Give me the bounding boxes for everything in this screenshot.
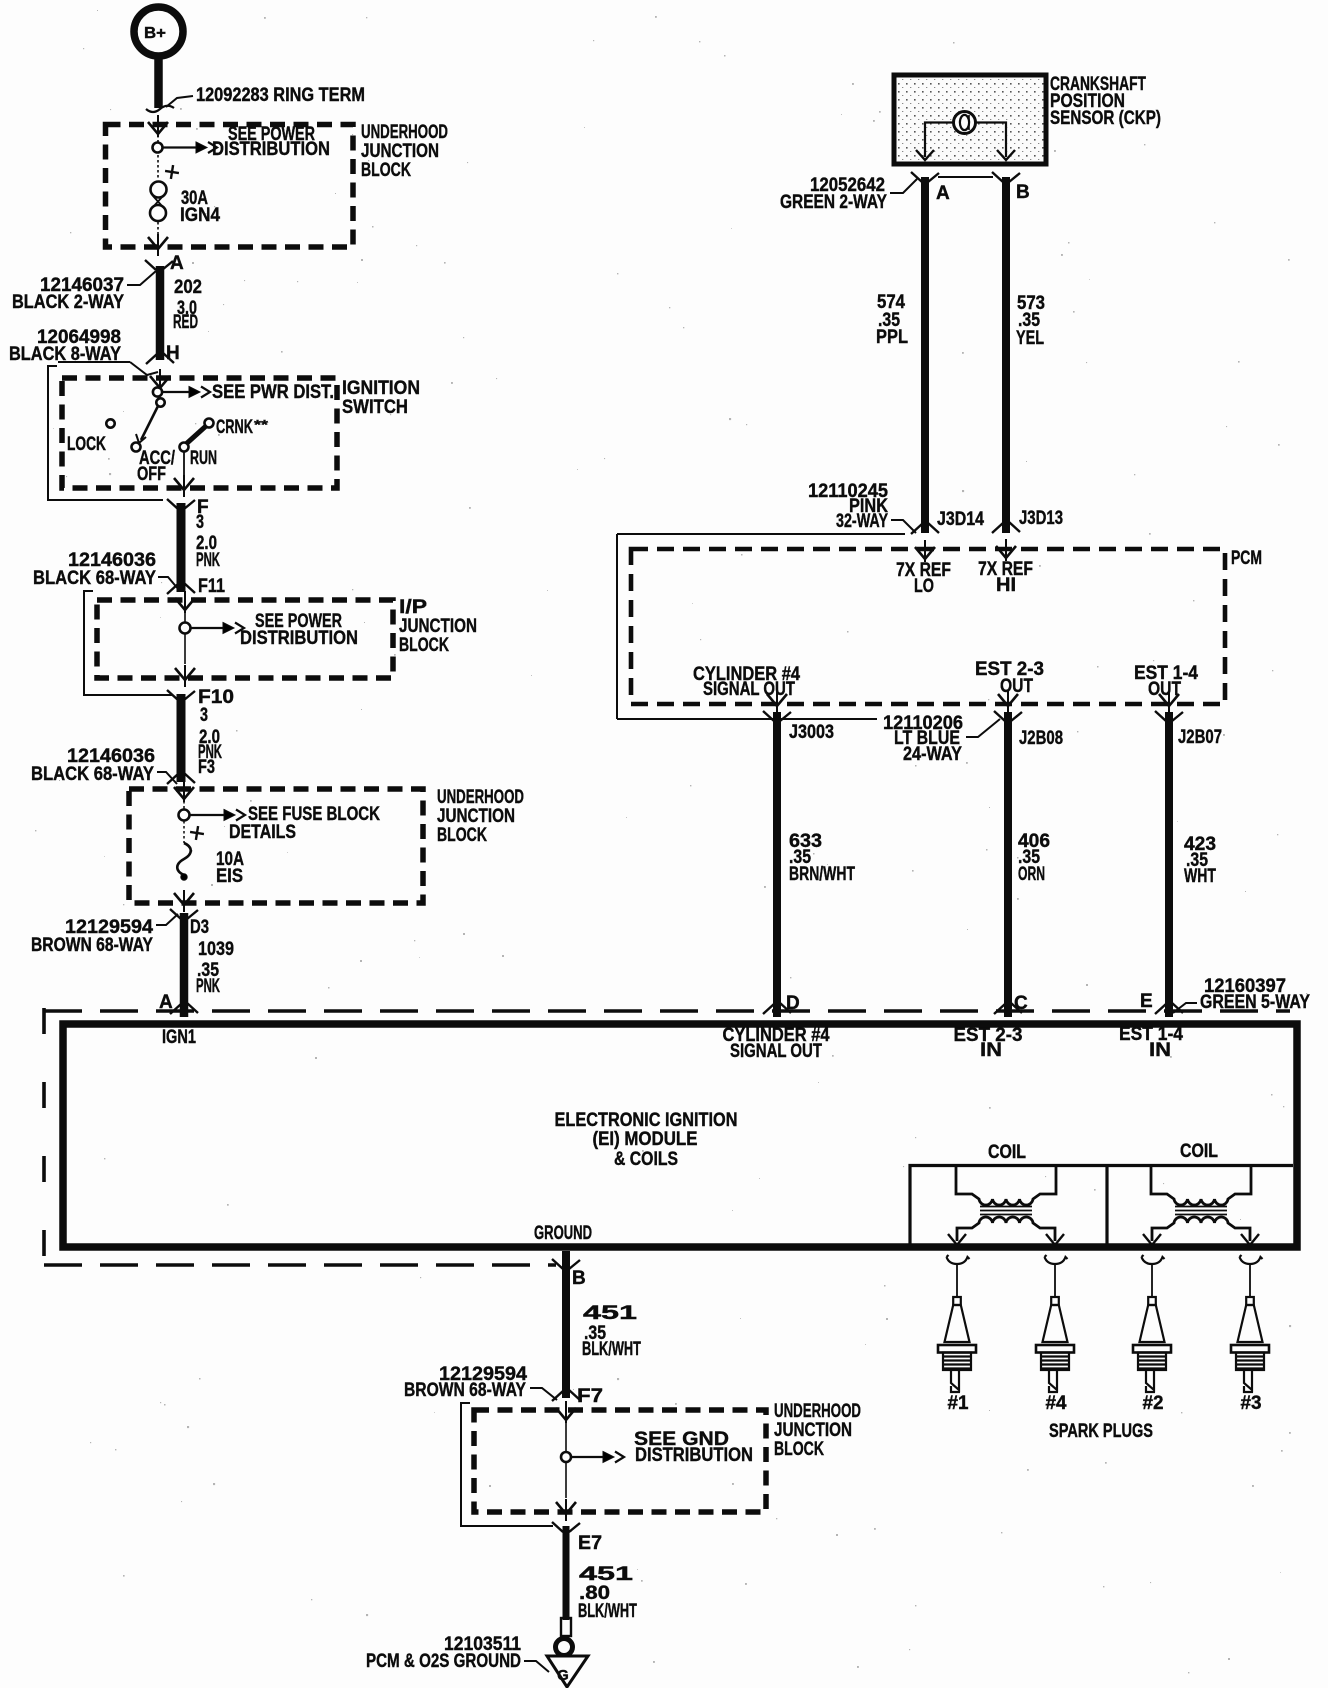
svg-text:A: A	[936, 183, 950, 204]
ignition switch block (dashed)	[62, 378, 337, 488]
node F3	[167, 757, 215, 784]
svg-text:LO: LO	[914, 576, 934, 597]
svg-text:BLOCK: BLOCK	[437, 825, 487, 846]
svg-text:UNDERHOOD: UNDERHOOD	[774, 1401, 861, 1422]
node H	[146, 343, 180, 364]
fuse 10A EIS	[177, 843, 244, 887]
svg-text:LOCK: LOCK	[67, 434, 106, 455]
label underhood junction block	[361, 122, 448, 181]
see gnd distribution arrow	[571, 1429, 753, 1466]
spark plug #1	[938, 1255, 976, 1414]
CKP internal wiring	[916, 123, 1015, 161]
see power distribution arrow	[191, 611, 358, 649]
node B ground pin	[552, 1259, 586, 1289]
label crankshaft position sensor	[1050, 74, 1161, 129]
node J2B08	[994, 711, 1063, 749]
svg-text:3: 3	[200, 705, 208, 726]
svg-text:COIL: COIL	[1180, 1141, 1218, 1162]
connector 12146037 BLACK 2-WAY	[12, 271, 156, 313]
svg-text:BLACK 68-WAY: BLACK 68-WAY	[31, 764, 154, 785]
node C	[994, 993, 1028, 1014]
label COIL 2	[1180, 1141, 1218, 1162]
svg-text:32-WAY: 32-WAY	[836, 511, 888, 532]
internal bus wire	[157, 135, 159, 238]
svg-text:A: A	[170, 253, 184, 274]
svg-text:J3003: J3003	[789, 722, 834, 743]
node J2B07	[1155, 711, 1222, 748]
contact RUN	[180, 443, 189, 452]
I/P junction block outer boundary	[84, 591, 172, 695]
svg-text:#4: #4	[1046, 1393, 1067, 1414]
connector 12064998 BLACK 8-WAY	[9, 327, 158, 375]
wire 451 .80 BLK/WHT	[566, 1526, 637, 1622]
EI module outer dashed boundary	[44, 1008, 1290, 1267]
svg-text:SEE PWR DIST.: SEE PWR DIST.	[212, 382, 334, 403]
exit arrow	[556, 1499, 576, 1521]
polarity plus mark	[164, 164, 180, 180]
svg-text:SENSOR (CKP): SENSOR (CKP)	[1050, 108, 1161, 129]
svg-text:F11: F11	[198, 576, 225, 597]
entry arrow	[556, 1401, 576, 1423]
svg-text:1039: 1039	[198, 939, 234, 960]
label underhood junction block 3	[774, 1401, 861, 1460]
label electronic ignition module	[555, 1110, 738, 1170]
svg-text:IN: IN	[1149, 1040, 1171, 1061]
entry arrow into block	[148, 115, 168, 137]
svg-text:BLACK 68-WAY: BLACK 68-WAY	[33, 568, 156, 589]
node F10	[167, 687, 234, 708]
spark plug #4	[1036, 1255, 1074, 1414]
svg-text:EIS: EIS	[216, 866, 243, 887]
contact to power distribution	[153, 387, 162, 396]
entry arrow	[174, 780, 194, 802]
svg-text:SIGNAL OUT: SIGNAL OUT	[730, 1041, 822, 1062]
svg-text:B: B	[1016, 182, 1030, 203]
label PCM	[1231, 548, 1262, 569]
svg-text:ORN: ORN	[1018, 864, 1045, 885]
module pin EST 1-4 in	[1119, 1024, 1183, 1061]
module pin GROUND	[534, 1223, 592, 1244]
wire 406 .35 ORN	[1008, 712, 1050, 1017]
svg-text:J3D14: J3D14	[937, 509, 984, 530]
node contact	[179, 810, 190, 821]
ring terminal	[556, 1618, 573, 1656]
svg-text:SWITCH: SWITCH	[342, 397, 408, 418]
ground symbol G	[547, 1656, 588, 1687]
svg-text:451: 451	[583, 1303, 638, 1324]
svg-text:3: 3	[196, 512, 204, 533]
switch pivot contact	[156, 398, 164, 406]
svg-text:BRN/WHT: BRN/WHT	[789, 864, 855, 885]
connector 12110245 PINK 32-WAY	[808, 481, 916, 533]
connector 12103511 PCM & O2S GROUND	[366, 1634, 549, 1672]
svg-text:CRNK: CRNK	[216, 417, 253, 438]
svg-text:HI: HI	[996, 575, 1016, 596]
underhood junction block 1 (dashed)	[106, 125, 354, 248]
svg-text:12092283 RING TERM: 12092283 RING TERM	[196, 85, 365, 106]
wire from B+ to underhood junction block	[146, 56, 174, 112]
svg-text:PPL: PPL	[876, 327, 908, 348]
entry arrow into switch	[150, 369, 170, 391]
module pin cylinder #4 signal out	[723, 1025, 830, 1062]
wire 574 .35 PPL	[876, 177, 925, 533]
svg-text:PCM & O2S GROUND: PCM & O2S GROUND	[366, 1651, 521, 1672]
underhood junction block 3 (dashed)	[474, 1410, 766, 1512]
wire 451 .35 BLK/WHT	[566, 1251, 641, 1398]
entry arrow 7X REF LO	[896, 540, 951, 597]
svg-text:J3D13: J3D13	[1019, 508, 1063, 529]
svg-text:WHT: WHT	[1184, 866, 1216, 887]
svg-text:OFF: OFF	[137, 464, 166, 485]
svg-text:PNK: PNK	[196, 550, 220, 571]
ignition switch outer boundary	[48, 366, 163, 500]
pin A label	[936, 183, 950, 204]
svg-text:ELECTRONIC IGNITION: ELECTRONIC IGNITION	[555, 1110, 738, 1131]
switch blade RUN-CRNK	[186, 426, 206, 444]
coil enclosure	[910, 1166, 1293, 1245]
wire 573 .35 YEL	[1006, 177, 1045, 533]
node J3003	[763, 711, 834, 743]
see power distribution arrow	[163, 124, 330, 160]
exit arrow	[174, 890, 194, 912]
svg-text:COIL: COIL	[988, 1142, 1026, 1163]
CKP sensor coil symbol	[954, 112, 976, 134]
node F7	[552, 1386, 603, 1407]
CKP harness connector bracket	[911, 172, 1020, 182]
PCM outer boundary	[617, 534, 905, 719]
internal wire	[183, 801, 185, 843]
node J3D14	[911, 509, 984, 534]
svg-text:UNDERHOOD: UNDERHOOD	[437, 787, 524, 808]
underhood junction block 3 outer boundary	[461, 1403, 553, 1526]
pin B label	[1016, 182, 1030, 203]
svg-text:BROWN 68-WAY: BROWN 68-WAY	[404, 1380, 526, 1401]
svg-text:BROWN 68-WAY: BROWN 68-WAY	[31, 935, 153, 956]
svg-text:#2: #2	[1143, 1393, 1164, 1414]
PCM output cylinder #4 signal out	[693, 664, 800, 713]
ignition coil 2 (transformer)	[1143, 1167, 1259, 1245]
svg-text:I/P: I/P	[399, 597, 427, 618]
contact LOCK	[106, 419, 114, 427]
node F11	[167, 576, 225, 597]
label ignition switch	[342, 378, 420, 418]
PCM output EST 2-3 out	[975, 659, 1044, 713]
svg-text:DISTRIBUTION: DISTRIBUTION	[635, 1445, 753, 1466]
svg-text:UNDERHOOD: UNDERHOOD	[361, 122, 448, 143]
svg-text:**: **	[254, 417, 269, 432]
see pwr dist arrow	[162, 382, 334, 403]
svg-text:BLOCK: BLOCK	[361, 160, 411, 181]
node E	[1140, 991, 1183, 1014]
svg-text:E: E	[1140, 991, 1153, 1012]
exit arrow from block	[148, 234, 168, 256]
svg-text:BLOCK: BLOCK	[399, 635, 449, 656]
entry arrow	[175, 591, 195, 613]
wire 3 2.0 PNK lower	[181, 694, 222, 782]
label CRNK**	[216, 417, 269, 438]
svg-text:& COILS: & COILS	[614, 1149, 678, 1170]
label I/P junction block	[399, 597, 477, 656]
svg-text:BLK/WHT: BLK/WHT	[578, 1601, 637, 1622]
svg-text:PCM: PCM	[1231, 548, 1262, 569]
svg-text:BLK/WHT: BLK/WHT	[582, 1339, 641, 1360]
ignition coil 1 (transformer)	[948, 1167, 1064, 1245]
svg-text:SIGNAL OUT: SIGNAL OUT	[703, 679, 795, 700]
svg-text:451: 451	[579, 1564, 634, 1585]
connector 12110206 LT BLUE 24-WAY	[883, 713, 1000, 765]
svg-text:JUNCTION: JUNCTION	[437, 806, 515, 827]
labels ACC/OFF RUN	[137, 448, 217, 485]
I/P junction block (dashed)	[97, 600, 393, 678]
spark plug #3	[1231, 1255, 1269, 1414]
label underhood junction block 2	[437, 787, 524, 846]
contact CRNK	[205, 419, 214, 428]
svg-text:IGNITION: IGNITION	[342, 378, 420, 399]
svg-text:DISTRIBUTION: DISTRIBUTION	[240, 628, 358, 649]
node D3	[170, 909, 209, 938]
svg-text:IGN1: IGN1	[162, 1027, 196, 1048]
svg-text:RUN: RUN	[190, 448, 217, 469]
node E7	[552, 1522, 602, 1554]
svg-text:202: 202	[174, 277, 202, 298]
node A	[145, 253, 184, 274]
svg-text:#1: #1	[948, 1393, 969, 1414]
svg-text:D3: D3	[190, 917, 209, 938]
svg-text:G: G	[557, 1667, 569, 1684]
node contact	[180, 623, 191, 634]
wire 633 .35 BRN/WHT	[777, 712, 855, 1017]
internal wire	[565, 1422, 567, 1498]
svg-text:GREEN 2-WAY: GREEN 2-WAY	[780, 192, 887, 213]
svg-text:J2B08: J2B08	[1019, 728, 1063, 749]
connector 12146036 BLACK 68-WAY lower	[31, 746, 177, 785]
svg-text:J2B07: J2B07	[1178, 727, 1222, 748]
svg-text:B: B	[572, 1268, 586, 1289]
label COIL 1	[988, 1142, 1026, 1163]
svg-text:F7: F7	[577, 1386, 603, 1407]
connector 12129594 BROWN 68-WAY	[31, 914, 178, 956]
svg-text:JUNCTION: JUNCTION	[774, 1420, 852, 1441]
wire RUN to F, exit arrow	[174, 451, 194, 497]
svg-text:PNK: PNK	[196, 976, 220, 997]
module pin EST 2-3 in	[954, 1025, 1023, 1061]
switch blade to ACC/OFF	[136, 406, 158, 443]
svg-text:DISTRIBUTION: DISTRIBUTION	[212, 139, 330, 160]
svg-text:BLOCK: BLOCK	[774, 1439, 824, 1460]
svg-text:YEL: YEL	[1016, 328, 1044, 349]
label spark plugs	[1049, 1421, 1153, 1442]
connector 12160397 GREEN 5-WAY	[1173, 976, 1310, 1013]
svg-text:B+: B+	[144, 25, 166, 42]
node contact	[561, 1452, 571, 1462]
node D	[763, 993, 800, 1014]
node contact	[153, 143, 163, 153]
battery terminal B+	[134, 7, 183, 56]
entry arrow 7X REF HI	[978, 539, 1033, 596]
spark plug #2	[1133, 1255, 1171, 1414]
module pin IGN1	[162, 1027, 196, 1048]
svg-text:F3: F3	[198, 757, 215, 778]
wire 423 .35 WHT	[1169, 712, 1216, 1017]
connector 12052642 GREEN 2-WAY	[780, 175, 917, 213]
svg-text:E7: E7	[578, 1533, 602, 1554]
connector 12092283 ring terminal label	[166, 85, 365, 107]
svg-text:IN: IN	[980, 1040, 1002, 1061]
connector 12129594 BROWN 68-WAY lower	[404, 1364, 557, 1401]
svg-text:(EI) MODULE: (EI) MODULE	[593, 1129, 698, 1150]
see fuse block details arrow	[190, 804, 380, 843]
wire 3 2.0 PNK	[181, 503, 220, 592]
exit arrow	[175, 665, 195, 687]
node J3D13	[992, 508, 1063, 533]
polarity plus mark	[189, 825, 205, 841]
svg-text:JUNCTION: JUNCTION	[399, 616, 477, 637]
PCM block (dashed)	[631, 549, 1225, 704]
PCM output EST 1-4 out	[1134, 663, 1198, 713]
svg-text:IGN4: IGN4	[180, 205, 220, 226]
fuse 30A IGN4	[150, 182, 220, 227]
svg-text:SPARK PLUGS: SPARK PLUGS	[1049, 1421, 1153, 1442]
contact ACC/OFF	[132, 443, 141, 452]
wire 202 3.0 RED	[160, 266, 202, 360]
svg-text:#3: #3	[1241, 1393, 1262, 1414]
wire 1039 .35 PNK	[184, 913, 234, 1017]
svg-text:JUNCTION: JUNCTION	[361, 141, 439, 162]
svg-text:RED: RED	[173, 312, 198, 333]
node F	[167, 497, 209, 518]
EI module box	[63, 1024, 1297, 1247]
svg-text:24-WAY: 24-WAY	[903, 744, 962, 765]
connector 12146036 BLACK 68-WAY	[33, 550, 179, 590]
svg-text:GROUND: GROUND	[534, 1223, 592, 1244]
label LOCK	[67, 434, 106, 455]
crankshaft position sensor (CKP) box	[894, 75, 1046, 164]
node A at EI module	[159, 992, 198, 1014]
underhood junction block 2 (dashed)	[129, 789, 423, 903]
svg-text:BLACK 2-WAY: BLACK 2-WAY	[12, 292, 124, 313]
internal wire	[184, 612, 186, 664]
svg-text:DETAILS: DETAILS	[229, 822, 296, 843]
